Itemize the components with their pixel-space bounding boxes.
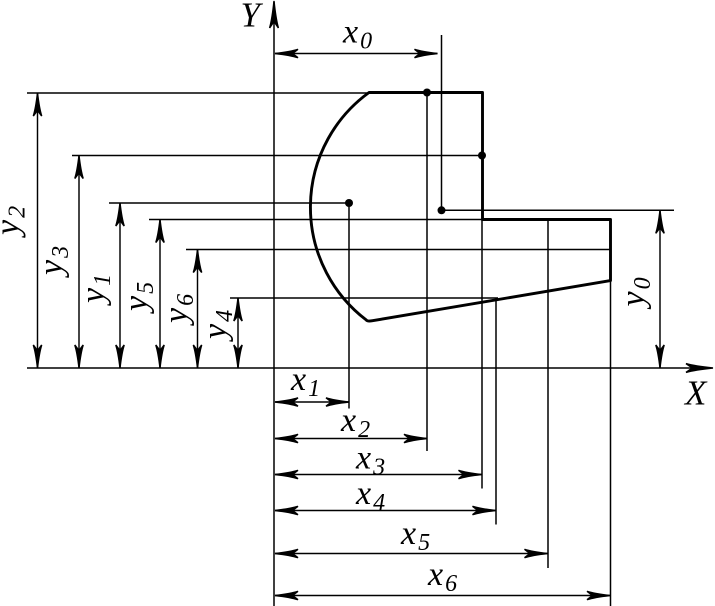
- svg-text:y2: y2: [0, 206, 31, 238]
- svg-text:X: X: [683, 374, 708, 413]
